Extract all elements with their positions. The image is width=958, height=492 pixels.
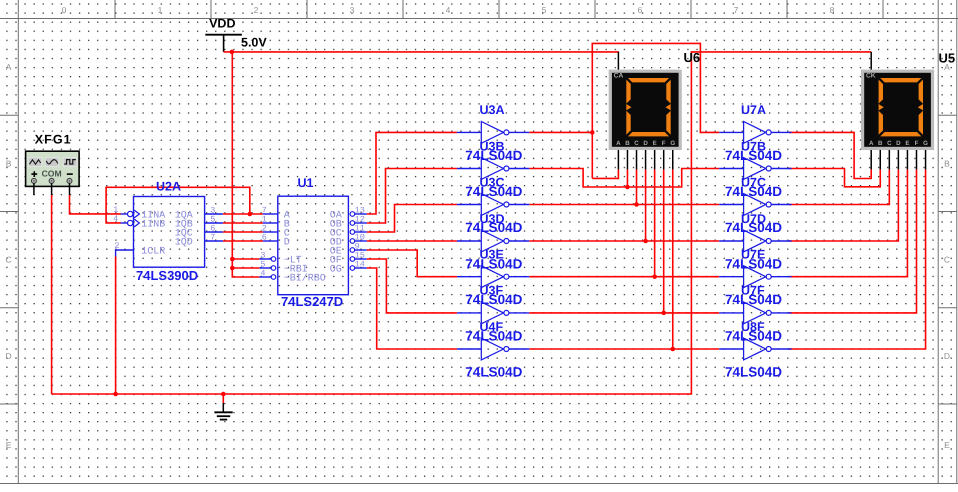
- svg-text:4: 4: [113, 214, 118, 224]
- svg-text:U6: U6: [684, 50, 701, 65]
- wire col2 out to U5 pin D: [789, 169, 899, 241]
- svg-text:D: D: [6, 351, 12, 361]
- U6 pin A: [617, 150, 619, 169]
- wire 1CLR to ground rail: [115, 257, 117, 395]
- svg-text:4: 4: [260, 268, 265, 278]
- svg-text:XFG1: XFG1: [35, 132, 72, 146]
- svg-text:B: B: [625, 140, 630, 147]
- junction U6 pin G: [671, 347, 676, 352]
- inverter U7F 74LS04D: [719, 302, 791, 324]
- wire COM to ground rail: [51, 195, 53, 394]
- wire U1 OB to U3B: [367, 169, 457, 224]
- wire net F to col2: [529, 312, 719, 314]
- U5 pin B: [879, 150, 881, 169]
- U5 pin E: [906, 150, 908, 169]
- svg-text:U2A: U2A: [156, 180, 181, 194]
- svg-text:G: G: [923, 140, 928, 147]
- wire VDD to ~RBI: [232, 267, 259, 269]
- svg-text:U7B: U7B: [741, 139, 766, 153]
- svg-text:F: F: [915, 140, 919, 147]
- U6 pin D: [645, 150, 647, 169]
- svg-text:U5: U5: [939, 51, 956, 66]
- svg-text:U3D: U3D: [480, 212, 505, 226]
- svg-text:A: A: [616, 140, 621, 147]
- svg-text:B: B: [944, 158, 950, 168]
- svg-text:A: A: [869, 140, 874, 147]
- svg-text:CA: CA: [614, 72, 624, 79]
- svg-text:3: 3: [350, 5, 355, 15]
- svg-text:U3E: U3E: [480, 248, 504, 262]
- svg-text:1CLR: 1CLR: [141, 246, 165, 257]
- svg-text:U3B: U3B: [480, 139, 505, 153]
- seven-segment display U5: [861, 70, 934, 150]
- svg-text:1QD: 1QD: [175, 237, 193, 248]
- svg-text:1INB: 1INB: [141, 219, 165, 230]
- svg-text:F: F: [662, 140, 666, 147]
- svg-text:5: 5: [542, 5, 547, 15]
- svg-text:U3F: U3F: [480, 284, 504, 298]
- svg-text:E: E: [6, 440, 12, 450]
- svg-text:D: D: [643, 140, 648, 147]
- seven-segment display U6: [609, 70, 682, 150]
- ground symbol: [214, 394, 232, 420]
- function generator XFG1: [26, 151, 80, 186]
- svg-text:C: C: [634, 140, 639, 147]
- wire U2A 1QB to U1 B: [223, 222, 263, 224]
- svg-text:2: 2: [114, 241, 119, 251]
- svg-text:U3C: U3C: [480, 175, 505, 189]
- svg-text:G: G: [670, 140, 675, 147]
- junction ground stem: [221, 392, 226, 397]
- wire U6 pin D drop: [645, 169, 647, 241]
- junction net A riser: [590, 130, 595, 135]
- svg-text:6: 6: [638, 5, 643, 15]
- wire U1 OG to U4F: [367, 268, 457, 349]
- inverter U7E 74LS04D: [719, 266, 791, 288]
- svg-text:C: C: [944, 255, 950, 265]
- svg-text:74LS390D: 74LS390D: [136, 268, 198, 283]
- wire XFG- to U2A 1INA: [70, 195, 121, 214]
- svg-text:OG: OG: [330, 264, 342, 275]
- wire U7B out to U5 pin B: [789, 169, 881, 187]
- junction U6 pin D: [643, 239, 648, 244]
- U6 pin E: [654, 150, 656, 169]
- svg-text:D: D: [284, 237, 290, 248]
- wire col2 out to U5 pin G: [789, 169, 926, 349]
- junction ~LT tap: [230, 257, 235, 262]
- svg-text:U1: U1: [298, 176, 314, 190]
- U6 pin B: [626, 150, 628, 169]
- wire VDD riser to ~BI/RBO: [232, 52, 259, 277]
- junction U6 pin B: [625, 185, 630, 190]
- junction U6 pin C: [634, 202, 639, 207]
- svg-text:U7D: U7D: [741, 212, 766, 226]
- svg-text:U4F: U4F: [480, 320, 504, 334]
- junction VDD rail: [230, 50, 235, 55]
- svg-text:C: C: [6, 255, 12, 265]
- svg-text:U7C: U7C: [741, 175, 766, 189]
- junction ~RBI tap: [230, 266, 235, 271]
- svg-text:7: 7: [734, 5, 739, 15]
- U5 pin C: [888, 150, 890, 169]
- svg-text:C: C: [887, 140, 892, 147]
- wire 1QA feedback to 1INB: [106, 187, 250, 223]
- U6 top pin (CA): [617, 52, 619, 70]
- wire net A to U6 pin A: [592, 169, 618, 178]
- svg-text:A: A: [6, 62, 12, 72]
- inverter U4F 74LS04D: [457, 338, 529, 360]
- svg-text:U8F: U8F: [741, 320, 765, 334]
- wire col2 out to U5 pin C: [789, 169, 890, 204]
- wire VDD rail to U6 CA: [224, 51, 619, 53]
- junction U6 pin E: [652, 274, 657, 279]
- svg-text:~BI/RBO: ~BI/RBO: [284, 272, 326, 284]
- power VDD symbol: [205, 35, 242, 52]
- wire U1 OD to U3D: [367, 240, 457, 242]
- inverter U7A 74LS04D: [719, 122, 791, 144]
- wire net E to col2: [529, 276, 719, 278]
- wire U1 OF to U3F: [367, 259, 457, 313]
- pin XFG1 + stub: [33, 183, 35, 195]
- U5 pin A: [870, 150, 872, 169]
- inverter U3D 74LS04D: [457, 230, 529, 252]
- svg-text:COM: COM: [42, 169, 62, 179]
- svg-text:U7F: U7F: [741, 284, 765, 298]
- svg-text:B: B: [6, 158, 12, 168]
- wire U6 pin C drop: [636, 169, 638, 204]
- wire net G to col2: [529, 348, 719, 350]
- wire ground rail to U5 CK: [52, 52, 872, 394]
- inverter U7C 74LS04D: [719, 194, 791, 216]
- U6 pin G: [672, 150, 674, 169]
- pin XFG1 COM stub: [51, 183, 53, 195]
- wire U2A 1QC to U1 C: [223, 231, 263, 233]
- svg-text:0: 0: [62, 5, 67, 15]
- U5 pin D: [897, 150, 899, 169]
- inverter U8F 74LS04D: [719, 338, 791, 360]
- inverter U7D 74LS04D: [719, 230, 791, 252]
- svg-text:74LS04D: 74LS04D: [465, 364, 522, 379]
- wire net C to col2: [529, 204, 719, 206]
- U5 top pin (CK): [870, 52, 872, 70]
- wire U6 pin F drop: [663, 169, 665, 313]
- wire U6 pin E drop: [654, 169, 656, 276]
- inverter U3A 74LS04D: [457, 122, 529, 144]
- svg-text:E: E: [653, 140, 657, 147]
- wire U7A out to U5 pin A: [789, 132, 872, 178]
- inverter U3C 74LS04D: [457, 194, 529, 216]
- decoder U1 74LS247D: [259, 196, 366, 295]
- svg-text:U7A: U7A: [741, 103, 766, 117]
- svg-text:14: 14: [355, 259, 365, 269]
- U5 pin F: [916, 150, 918, 169]
- pin XFG1 - stub: [69, 183, 71, 195]
- inverter U3E 74LS04D: [457, 266, 529, 288]
- U6 pin C: [636, 150, 638, 169]
- svg-text:1: 1: [158, 5, 163, 15]
- inverter U7B 74LS04D: [719, 158, 791, 180]
- wire net A over U6 to U7A: [592, 43, 719, 178]
- wire U1 OE to U3E: [367, 250, 457, 277]
- wire net B under U6 to U7B: [529, 169, 719, 188]
- svg-text:CK: CK: [866, 72, 876, 79]
- svg-text:B: B: [878, 140, 883, 147]
- svg-text:U3A: U3A: [480, 103, 505, 117]
- wire U1 OA to U3A: [367, 132, 457, 214]
- junction U6 pin F: [661, 311, 666, 316]
- wire col2 out to U5 pin E: [789, 169, 908, 276]
- wire U6 pin B drop: [626, 169, 628, 187]
- svg-text:D: D: [896, 140, 901, 147]
- svg-text:6: 6: [262, 232, 267, 242]
- junction feedback on row A: [248, 212, 253, 217]
- wire U2A 1QD to U1 D: [223, 240, 263, 242]
- svg-text:7: 7: [210, 232, 215, 242]
- svg-text:74LS04D: 74LS04D: [725, 364, 782, 379]
- svg-text:E: E: [944, 440, 950, 450]
- inverter U3F 74LS04D: [457, 302, 529, 324]
- counter U2A 74LS390D: [116, 197, 223, 268]
- svg-text:U7E: U7E: [741, 248, 765, 262]
- wire U1 OC to U3C: [367, 205, 457, 233]
- wire col2 out to U5 pin F: [789, 169, 917, 313]
- svg-text:E: E: [905, 140, 909, 147]
- svg-text:74LS247D: 74LS247D: [281, 294, 343, 309]
- svg-text:VDD: VDD: [209, 16, 235, 30]
- wire U6 pin G drop: [672, 169, 674, 349]
- U5 pin G: [925, 150, 927, 169]
- wire U2A 1QA to U1 A: [223, 213, 263, 215]
- wire net D to col2: [529, 240, 719, 242]
- svg-text:5.0V: 5.0V: [241, 36, 267, 50]
- wire VDD to ~LT: [232, 258, 259, 260]
- inverter U3B 74LS04D: [457, 158, 529, 180]
- svg-text:8: 8: [830, 5, 835, 15]
- U6 pin F: [663, 150, 665, 169]
- svg-text:2: 2: [254, 5, 259, 15]
- svg-text:4: 4: [446, 5, 451, 15]
- svg-text:D: D: [944, 351, 950, 361]
- junction 1CLR riser: [113, 392, 118, 397]
- wire U3A out: [529, 131, 592, 133]
